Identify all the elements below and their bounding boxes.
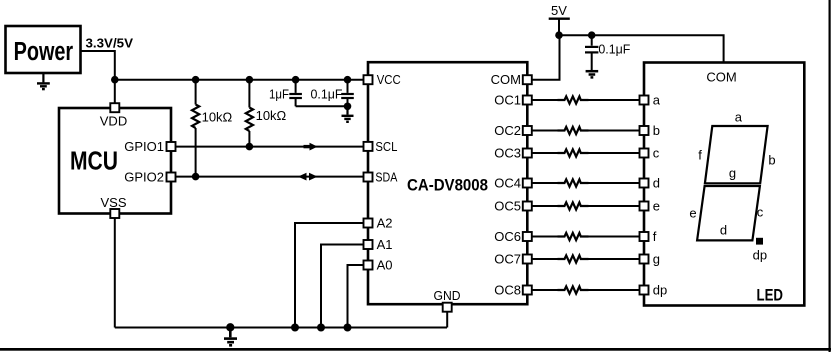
svg-text:10kΩ: 10kΩ xyxy=(202,110,233,125)
resistor row OC2-b xyxy=(532,127,640,134)
svg-text:0.1μF: 0.1μF xyxy=(598,41,630,56)
pin SDA xyxy=(364,170,398,185)
pin OC7 xyxy=(494,252,532,267)
pin SCL xyxy=(364,139,398,154)
page right border xyxy=(829,0,831,352)
svg-text:SCL: SCL xyxy=(375,139,397,154)
svg-text:Power: Power xyxy=(14,38,74,66)
svg-text:OC5: OC5 xyxy=(494,199,521,214)
pin VCC xyxy=(364,72,401,87)
svg-text:5V: 5V xyxy=(551,3,567,18)
svg-text:OC2: OC2 xyxy=(494,123,521,138)
pin GPIO2 xyxy=(124,170,175,185)
wire COM to 5V xyxy=(532,35,560,79)
svg-text:OC7: OC7 xyxy=(494,252,521,267)
resistor R1 10k pullup SDA xyxy=(192,80,233,177)
node A1 rail xyxy=(317,324,325,332)
node vdd rail junction xyxy=(111,76,119,84)
wire power to vcc rail xyxy=(81,51,115,80)
node A2 rail xyxy=(291,324,299,332)
wire 5V rail to LED xyxy=(559,35,724,62)
pin e xyxy=(640,199,661,214)
svg-text:CA-DV8008: CA-DV8008 xyxy=(407,177,488,195)
wire GND down xyxy=(446,312,448,328)
wire vdd xyxy=(114,80,116,104)
capacitor C2 0.1uF xyxy=(311,80,354,107)
seven segment display outline top xyxy=(705,126,768,183)
svg-text:0.1μF: 0.1μF xyxy=(311,87,343,102)
svg-text:OC3: OC3 xyxy=(494,146,521,161)
wire A1 xyxy=(321,245,364,328)
node R2 bottom SCL xyxy=(246,143,254,151)
svg-text:g: g xyxy=(729,165,736,180)
resistor row OC6-f xyxy=(532,233,640,240)
svg-text:dp: dp xyxy=(753,248,767,263)
pin GPIO1 xyxy=(124,139,175,154)
svg-text:GND: GND xyxy=(434,288,461,303)
node C2 bottom xyxy=(344,103,352,111)
wire A2 xyxy=(295,223,364,328)
pin g xyxy=(640,252,661,267)
svg-text:b: b xyxy=(653,123,660,138)
wire SCL xyxy=(176,146,365,148)
svg-text:OC8: OC8 xyxy=(494,283,521,298)
pin A0 xyxy=(364,258,393,273)
wire A0 xyxy=(348,265,364,328)
pin GND xyxy=(434,288,461,312)
resistor row OC5-e xyxy=(532,202,640,209)
pin OC5 xyxy=(494,199,532,214)
svg-text:e: e xyxy=(653,199,660,214)
pin VDD xyxy=(100,103,127,128)
svg-text:b: b xyxy=(768,152,775,167)
pin A2 xyxy=(364,216,393,231)
svg-text:OC6: OC6 xyxy=(494,229,521,244)
svg-text:A2: A2 xyxy=(377,216,393,231)
arrow SDA bidirectional xyxy=(298,173,318,181)
pin OC1 xyxy=(494,93,532,108)
node A0 rail xyxy=(344,324,352,332)
supply 5V xyxy=(549,3,570,35)
svg-text:COM: COM xyxy=(706,70,736,85)
svg-text:A1: A1 xyxy=(377,237,393,252)
svg-text:e: e xyxy=(689,206,696,221)
node C2 top xyxy=(344,76,352,84)
wire vcc rail xyxy=(115,79,364,81)
capacitor C1 1uF xyxy=(269,80,302,107)
pin COM xyxy=(491,72,532,87)
resistor row OC1-a xyxy=(532,96,640,103)
node 5V junction xyxy=(555,31,563,39)
svg-text:10kΩ: 10kΩ xyxy=(256,108,287,123)
resistor row OC4-d xyxy=(532,179,640,186)
resistor row OC8-dp xyxy=(532,286,640,293)
node R1 bottom SDA xyxy=(192,173,200,181)
resistor R2 10k pullup SCL xyxy=(246,80,287,147)
svg-text:f: f xyxy=(698,147,702,162)
pin f xyxy=(640,229,657,244)
decimal point dp xyxy=(756,238,763,245)
pin c xyxy=(640,146,660,161)
pin VSS xyxy=(100,195,126,218)
svg-text:1μF: 1μF xyxy=(269,87,289,102)
svg-text:dp: dp xyxy=(653,283,667,298)
pin a xyxy=(640,93,661,108)
ground under power box xyxy=(37,73,50,89)
svg-text:VCC: VCC xyxy=(377,72,401,87)
ground under C3 xyxy=(586,71,599,77)
svg-text:OC4: OC4 xyxy=(494,176,521,191)
node R2 top xyxy=(246,76,254,84)
node C1 top xyxy=(292,76,300,84)
svg-text:3.3V/5V: 3.3V/5V xyxy=(86,36,134,51)
svg-text:LED: LED xyxy=(757,287,784,305)
svg-text:VDD: VDD xyxy=(100,114,127,129)
IC box CA-DV8008 xyxy=(368,62,527,304)
LED display box xyxy=(644,63,804,306)
pin OC4 xyxy=(494,176,532,191)
pin OC2 xyxy=(494,123,532,138)
svg-text:a: a xyxy=(653,93,661,108)
svg-text:COM: COM xyxy=(491,72,521,87)
wire SDA xyxy=(176,176,365,178)
svg-text:g: g xyxy=(653,252,660,267)
svg-text:SDA: SDA xyxy=(375,170,397,185)
svg-text:GPIO2: GPIO2 xyxy=(124,170,164,185)
wire VSS down xyxy=(114,218,116,328)
pin b xyxy=(640,123,661,138)
resistor row OC7-g xyxy=(532,255,640,262)
MCU box xyxy=(59,108,171,214)
svg-text:d: d xyxy=(653,176,660,191)
wire ground rail bottom xyxy=(115,326,447,328)
svg-text:f: f xyxy=(653,229,657,244)
pin dp xyxy=(640,283,668,298)
svg-text:c: c xyxy=(757,205,764,220)
svg-text:a: a xyxy=(735,110,743,125)
capacitor C3 0.1uF xyxy=(585,31,630,70)
svg-text:VSS: VSS xyxy=(100,195,126,210)
svg-text:OC1: OC1 xyxy=(494,93,521,108)
pin OC8 xyxy=(494,283,532,298)
arrow SCL right xyxy=(310,143,318,151)
node R1 top xyxy=(192,76,200,84)
seven segment display outline bottom xyxy=(697,186,760,240)
svg-text:c: c xyxy=(653,146,660,161)
svg-text:MCU: MCU xyxy=(70,146,118,176)
power supply box xyxy=(6,26,81,73)
pin d xyxy=(640,176,661,191)
svg-text:GPIO1: GPIO1 xyxy=(124,139,164,154)
resistor row OC3-c xyxy=(532,149,640,156)
page bottom border xyxy=(0,348,831,351)
pin OC6 xyxy=(494,229,532,244)
pin A1 xyxy=(364,237,393,252)
wire C1 to C2 bottom xyxy=(296,105,348,107)
svg-text:A0: A0 xyxy=(377,258,393,273)
ground symbol on bottom rail xyxy=(224,323,237,345)
svg-text:d: d xyxy=(720,223,727,238)
ground under C2 xyxy=(342,106,354,122)
pin OC3 xyxy=(494,146,532,161)
